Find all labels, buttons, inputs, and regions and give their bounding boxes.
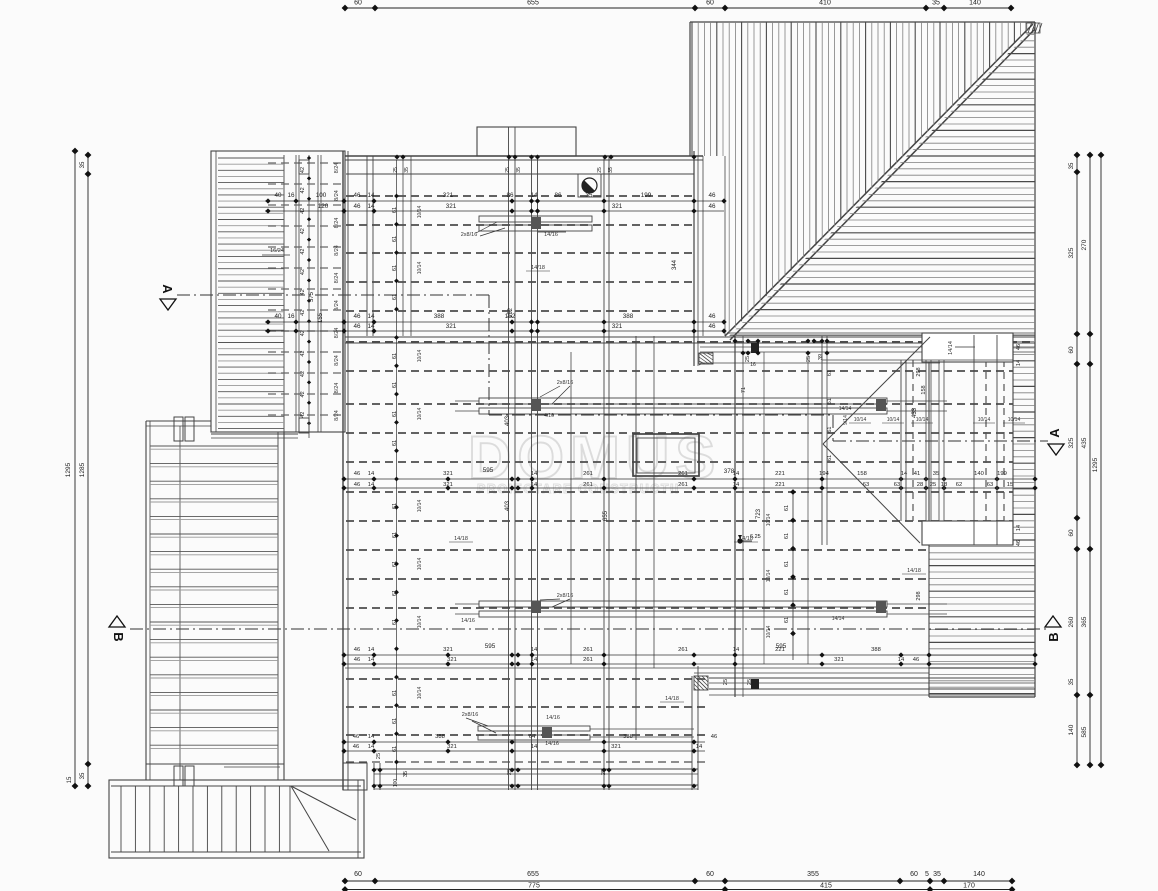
svg-text:14/14: 14/14: [948, 341, 954, 355]
svg-text:41: 41: [914, 471, 920, 477]
svg-text:298: 298: [916, 591, 922, 600]
svg-text:61: 61: [784, 561, 790, 567]
svg-text:14: 14: [898, 657, 905, 663]
svg-text:355: 355: [807, 871, 819, 878]
svg-text:14: 14: [530, 192, 538, 199]
svg-text:100: 100: [316, 192, 327, 199]
svg-text:61: 61: [392, 411, 398, 417]
svg-text:46: 46: [708, 323, 716, 330]
svg-text:10/14: 10/14: [417, 206, 423, 219]
terrace door posts bottom: [174, 766, 280, 786]
crosshatch column bottom: [694, 676, 708, 690]
svg-text:25: 25: [806, 356, 812, 362]
svg-text:61: 61: [784, 617, 790, 623]
joist spacing chain vertical left: [392, 160, 423, 780]
svg-text:261: 261: [583, 647, 593, 653]
svg-text:42: 42: [300, 167, 306, 173]
double beam detail B3 mid-lower: [455, 593, 947, 624]
joist spacing chain wing: [827, 370, 849, 461]
balcony joist dimension column: [262, 155, 340, 438]
svg-text:46: 46: [353, 323, 361, 330]
svg-text:61: 61: [392, 207, 398, 213]
balcony dashed joist axes: [268, 163, 344, 415]
svg-text:403: 403: [505, 415, 511, 426]
svg-text:10/14: 10/14: [417, 500, 423, 513]
svg-text:14: 14: [531, 482, 538, 488]
svg-text:10/14: 10/14: [766, 514, 772, 527]
svg-text:14: 14: [531, 647, 538, 653]
svg-text:14: 14: [368, 734, 375, 740]
svg-text:14: 14: [368, 471, 375, 477]
svg-text:25: 25: [393, 167, 399, 173]
svg-text:42: 42: [300, 228, 306, 234]
svg-text:42: 42: [300, 187, 306, 193]
svg-text:10/14: 10/14: [417, 558, 423, 571]
svg-text:321: 321: [443, 647, 453, 653]
column marker dark bottom: [751, 679, 759, 689]
roof ridge diagonal: [725, 24, 1035, 340]
svg-text:140: 140: [973, 871, 985, 878]
svg-text:14/14: 14/14: [832, 616, 845, 622]
svg-text:260: 260: [1068, 616, 1075, 627]
svg-text:170: 170: [963, 883, 975, 890]
svg-text:60: 60: [706, 871, 714, 878]
double beam detail B1 top: [461, 216, 592, 238]
svg-text:46: 46: [913, 657, 919, 663]
svg-text:270: 270: [1081, 239, 1088, 250]
svg-text:46: 46: [708, 203, 716, 210]
svg-text:14: 14: [367, 323, 375, 330]
svg-text:16/24: 16/24: [270, 248, 284, 254]
svg-text:14/16: 14/16: [546, 715, 560, 721]
joist spacing chain vertical right: [766, 489, 796, 660]
svg-text:221: 221: [775, 471, 785, 477]
ridge beam end patch: [1026, 23, 1042, 33]
chain R5: [341, 734, 717, 754]
svg-text:46: 46: [353, 744, 359, 750]
svg-text:2x8/16: 2x8/16: [461, 232, 478, 238]
svg-text:10/14: 10/14: [417, 408, 423, 421]
svg-text:46: 46: [1016, 540, 1022, 546]
svg-text:A: A: [1047, 428, 1062, 438]
section marker B right: [1045, 616, 1061, 642]
svg-text:42: 42: [300, 269, 306, 275]
wing bottom box: [922, 521, 1013, 545]
svg-text:8/24: 8/24: [334, 218, 340, 229]
svg-text:46: 46: [711, 734, 717, 740]
svg-text:35: 35: [933, 871, 941, 878]
svg-text:10/14: 10/14: [417, 616, 423, 629]
svg-text:14/14: 14/14: [839, 406, 852, 412]
staircase treads: [121, 786, 290, 852]
svg-text:194: 194: [819, 471, 829, 477]
svg-text:2x8/16: 2x8/16: [462, 712, 479, 718]
crosshatch column top: [699, 352, 713, 365]
svg-text:2x8/16: 2x8/16: [557, 380, 574, 386]
svg-text:40: 40: [274, 192, 282, 199]
balcony chain end boxes: [299, 160, 309, 433]
svg-text:14: 14: [367, 313, 375, 320]
stair opening rectangle: [633, 434, 699, 476]
svg-text:14: 14: [367, 203, 375, 210]
double beam detail B4 bottom: [462, 712, 694, 747]
svg-text:595: 595: [776, 643, 787, 650]
svg-text:14/16: 14/16: [544, 232, 558, 238]
mid band horizontal lines: [345, 337, 1035, 673]
svg-text:8/24: 8/24: [334, 383, 340, 394]
terrace door posts top: [174, 417, 194, 441]
node ticks wall top: [394, 154, 696, 159]
svg-text:321: 321: [443, 192, 454, 199]
wall top-right vertical: [694, 151, 725, 366]
dimension chain right: [1068, 152, 1104, 769]
svg-text:60: 60: [910, 871, 918, 878]
dimension chain bottom first: [342, 871, 1016, 884]
svg-text:14/18: 14/18: [531, 265, 545, 271]
svg-text:410: 410: [819, 0, 831, 7]
svg-text:261: 261: [678, 647, 688, 653]
level point symbol: [737, 534, 760, 544]
balcony deck planks: [218, 158, 284, 429]
svg-text:14: 14: [1016, 360, 1022, 366]
svg-text:10/14: 10/14: [854, 417, 867, 423]
svg-text:14: 14: [733, 647, 740, 653]
svg-text:15: 15: [1007, 482, 1013, 488]
svg-text:14/18: 14/18: [907, 568, 921, 574]
svg-text:46: 46: [353, 203, 361, 210]
svg-text:140: 140: [974, 471, 984, 477]
svg-text:595: 595: [483, 467, 494, 474]
svg-text:14/18: 14/18: [665, 696, 679, 702]
svg-text:8/24: 8/24: [334, 273, 340, 284]
svg-text:61: 61: [392, 265, 398, 271]
svg-text:14: 14: [1016, 525, 1022, 531]
svg-text:25: 25: [376, 753, 382, 759]
svg-text:14: 14: [368, 744, 375, 750]
svg-text:14: 14: [531, 744, 538, 750]
svg-text:261: 261: [678, 482, 688, 488]
svg-text:199: 199: [641, 192, 652, 199]
svg-text:61: 61: [392, 590, 398, 596]
svg-text:39: 39: [818, 354, 824, 360]
svg-text:321: 321: [446, 323, 457, 330]
svg-text:35: 35: [933, 471, 939, 477]
svg-text:140: 140: [1068, 724, 1075, 735]
svg-text:A: A: [160, 284, 175, 294]
svg-text:46: 46: [354, 657, 360, 663]
bottom foundation band: [343, 763, 698, 790]
svg-text:365: 365: [1081, 616, 1088, 627]
svg-text:61: 61: [392, 236, 398, 242]
wing hip diagonals: [823, 337, 930, 543]
svg-text:25: 25: [597, 167, 603, 173]
svg-text:14: 14: [696, 744, 703, 750]
svg-text:8/24: 8/24: [334, 355, 340, 366]
svg-text:1295: 1295: [65, 462, 72, 477]
svg-text:723: 723: [756, 508, 762, 519]
chimney block top: [477, 127, 576, 156]
svg-text:35: 35: [1069, 162, 1075, 169]
svg-text:10/14: 10/14: [887, 417, 900, 423]
wall top main: [345, 156, 703, 174]
svg-text:46: 46: [1016, 344, 1022, 350]
dimension chain bottom second: [342, 883, 1016, 891]
svg-text:14/16: 14/16: [545, 741, 559, 747]
chain R1 upper: [265, 192, 727, 214]
svg-text:14: 14: [368, 657, 375, 663]
section line A-A: [177, 295, 1048, 441]
svg-text:16: 16: [287, 313, 295, 320]
svg-text:35: 35: [80, 772, 86, 779]
svg-text:403: 403: [505, 500, 511, 511]
svg-text:63: 63: [987, 482, 993, 488]
svg-text:10/14: 10/14: [417, 262, 423, 275]
svg-text:35: 35: [608, 167, 614, 173]
svg-text:46: 46: [354, 471, 360, 477]
svg-text:378: 378: [724, 468, 735, 475]
svg-text:B: B: [111, 632, 126, 641]
svg-text:575: 575: [309, 291, 315, 302]
svg-text:4/16: 4/16: [544, 413, 554, 419]
svg-text:298: 298: [916, 367, 922, 376]
svg-text:35: 35: [1069, 678, 1075, 685]
svg-text:61: 61: [784, 533, 790, 539]
wing size labels: [723, 344, 1025, 685]
svg-text:46: 46: [354, 482, 360, 488]
joist axes mid section: [346, 342, 1035, 608]
svg-text:42: 42: [300, 371, 306, 377]
svg-text:261: 261: [583, 471, 593, 477]
svg-text:61: 61: [392, 382, 398, 388]
node ticks eave band: [732, 338, 829, 355]
svg-text:199: 199: [997, 471, 1007, 477]
drain circle symbol: [578, 174, 601, 197]
svg-text:63: 63: [894, 482, 900, 488]
svg-text:321: 321: [446, 203, 457, 210]
svg-text:8/24: 8/24: [334, 190, 340, 201]
svg-text:61: 61: [827, 427, 833, 433]
svg-text:61: 61: [392, 503, 398, 509]
svg-text:325: 325: [1068, 247, 1075, 258]
svg-text:435: 435: [1081, 437, 1088, 448]
svg-text:321: 321: [612, 203, 623, 210]
svg-text:86: 86: [554, 192, 562, 199]
svg-text:16: 16: [287, 192, 295, 199]
chain R4: [341, 643, 1037, 667]
svg-text:61: 61: [784, 505, 790, 511]
svg-text:388: 388: [623, 313, 634, 320]
svg-text:61: 61: [392, 746, 398, 752]
interior beam axis lines vertical: [367, 127, 929, 790]
svg-text:5: 5: [925, 871, 929, 878]
svg-text:100: 100: [393, 779, 399, 788]
watermark DOMUS: [468, 424, 721, 496]
svg-text:25: 25: [505, 167, 511, 173]
chain R3: [341, 467, 1037, 491]
svg-text:1285: 1285: [79, 462, 86, 477]
svg-text:46: 46: [353, 192, 361, 199]
svg-text:35: 35: [932, 0, 940, 7]
svg-text:86: 86: [506, 192, 514, 199]
svg-text:15: 15: [67, 776, 73, 783]
svg-text:14: 14: [367, 192, 375, 199]
svg-text:14: 14: [901, 471, 908, 477]
svg-text:14/18: 14/18: [739, 536, 753, 542]
svg-text:35: 35: [80, 161, 86, 168]
svg-text:158: 158: [921, 385, 927, 394]
svg-text:61: 61: [827, 455, 833, 461]
svg-text:61: 61: [392, 690, 398, 696]
svg-text:10/14: 10/14: [766, 626, 772, 639]
joist axes top section: [346, 196, 694, 311]
roof panel outline: [690, 22, 1035, 697]
svg-text:61: 61: [392, 294, 398, 300]
dimension chain left: [65, 148, 91, 790]
svg-text:152: 152: [508, 307, 514, 318]
svg-text:14: 14: [368, 482, 375, 488]
svg-text:14/16: 14/16: [461, 618, 475, 624]
svg-text:321: 321: [447, 657, 457, 663]
svg-text:140: 140: [969, 0, 981, 7]
svg-text:585: 585: [1081, 726, 1088, 737]
svg-text:344: 344: [672, 259, 678, 270]
svg-text:261: 261: [583, 657, 593, 663]
svg-text:60: 60: [1068, 529, 1075, 537]
svg-text:60: 60: [1068, 346, 1075, 354]
svg-text:71: 71: [741, 387, 747, 393]
svg-text:60: 60: [354, 871, 362, 878]
joist axes dashed verticals right wing: [913, 336, 1004, 545]
joist axes bottom section: [346, 679, 705, 762]
svg-text:42: 42: [300, 310, 306, 316]
svg-text:388: 388: [435, 734, 445, 740]
svg-text:46: 46: [708, 192, 716, 199]
column marker dark top: [751, 343, 759, 353]
svg-text:10/14: 10/14: [417, 687, 423, 700]
svg-text:8/24: 8/24: [334, 163, 340, 174]
svg-text:46: 46: [354, 647, 360, 653]
svg-text:8/24: 8/24: [334, 328, 340, 339]
svg-text:10/14: 10/14: [766, 570, 772, 583]
staircase outline: [109, 780, 364, 858]
svg-text:433: 433: [912, 407, 918, 418]
svg-text:42: 42: [300, 289, 306, 295]
svg-text:325: 325: [1068, 437, 1075, 448]
svg-text:595: 595: [485, 643, 496, 650]
svg-text:62: 62: [956, 482, 962, 488]
section marker A right: [1047, 428, 1064, 455]
svg-text:14/18: 14/18: [454, 536, 468, 542]
svg-text:28: 28: [917, 482, 923, 488]
svg-text:14: 14: [531, 657, 538, 663]
svg-text:321: 321: [443, 482, 453, 488]
svg-text:14: 14: [531, 471, 538, 477]
balcony deck top-left outline: [211, 151, 345, 438]
section marker B left: [109, 616, 126, 642]
section line B-B: [130, 628, 1048, 630]
svg-text:35: 35: [404, 167, 410, 173]
svg-text:10/14: 10/14: [1008, 417, 1021, 423]
svg-text:25: 25: [723, 679, 729, 685]
svg-text:775: 775: [528, 883, 540, 890]
terrace deck planks: [150, 446, 278, 748]
svg-text:655: 655: [603, 510, 609, 521]
svg-text:155: 155: [318, 312, 324, 323]
svg-text:61: 61: [392, 561, 398, 567]
svg-text:61: 61: [827, 370, 833, 376]
roof eave edge lines: [727, 332, 1035, 334]
svg-text:321: 321: [447, 744, 457, 750]
section marker A left: [160, 284, 176, 310]
svg-text:655: 655: [527, 871, 539, 878]
wall left main: [343, 151, 348, 790]
svg-text:321: 321: [612, 323, 623, 330]
svg-text:61: 61: [827, 398, 833, 404]
svg-text:321: 321: [611, 744, 621, 750]
svg-text:46: 46: [353, 313, 361, 320]
svg-text:60: 60: [354, 0, 362, 7]
terrace deck left outline: [146, 421, 284, 780]
joist size labels center: [376, 167, 926, 787]
svg-text:2x8/16: 2x8/16: [557, 593, 574, 599]
svg-text:388: 388: [434, 313, 445, 320]
svg-text:221: 221: [775, 482, 785, 488]
svg-text:61: 61: [392, 440, 398, 446]
double beam detail B2 mid-upper: [455, 380, 947, 419]
svg-text:40: 40: [274, 313, 282, 320]
svg-text:60: 60: [706, 0, 714, 7]
wing top box 14/14: [922, 333, 1013, 362]
svg-text:61: 61: [392, 718, 398, 724]
svg-text:B: B: [1046, 632, 1061, 641]
svg-text:10/14: 10/14: [978, 417, 991, 423]
svg-text:35: 35: [516, 167, 522, 173]
svg-text:14: 14: [368, 647, 375, 653]
chain R2: [265, 313, 727, 334]
wing rafter lines: [822, 335, 1013, 545]
svg-text:14: 14: [733, 482, 740, 488]
svg-text:10/14: 10/14: [417, 350, 423, 363]
svg-text:61: 61: [392, 532, 398, 538]
svg-text:388: 388: [871, 647, 881, 653]
staircase winders: [291, 786, 356, 851]
node ticks foundation band: [371, 767, 696, 788]
svg-text:8/24: 8/24: [334, 300, 340, 311]
svg-text:321: 321: [443, 471, 453, 477]
svg-text:46: 46: [353, 734, 359, 740]
bottom edge band right: [709, 678, 1035, 695]
svg-text:25: 25: [747, 679, 753, 685]
dimension chain top: [342, 0, 1015, 11]
svg-text:261: 261: [583, 482, 593, 488]
svg-text:1295: 1295: [1092, 457, 1099, 472]
svg-text:46: 46: [708, 313, 716, 320]
svg-text:42: 42: [300, 249, 306, 255]
svg-text:16: 16: [750, 362, 756, 368]
svg-text:120: 120: [318, 203, 329, 210]
svg-text:158: 158: [857, 471, 867, 477]
svg-text:PROIECTARE CONSTRUCTII: PROIECTARE CONSTRUCTII: [477, 482, 680, 496]
svg-text:655: 655: [527, 0, 539, 7]
svg-text:61: 61: [392, 619, 398, 625]
svg-text:35: 35: [403, 771, 409, 777]
svg-text:415: 415: [820, 883, 832, 890]
svg-text:61: 61: [392, 353, 398, 359]
svg-text:321: 321: [834, 657, 844, 663]
svg-text:61: 61: [784, 589, 790, 595]
